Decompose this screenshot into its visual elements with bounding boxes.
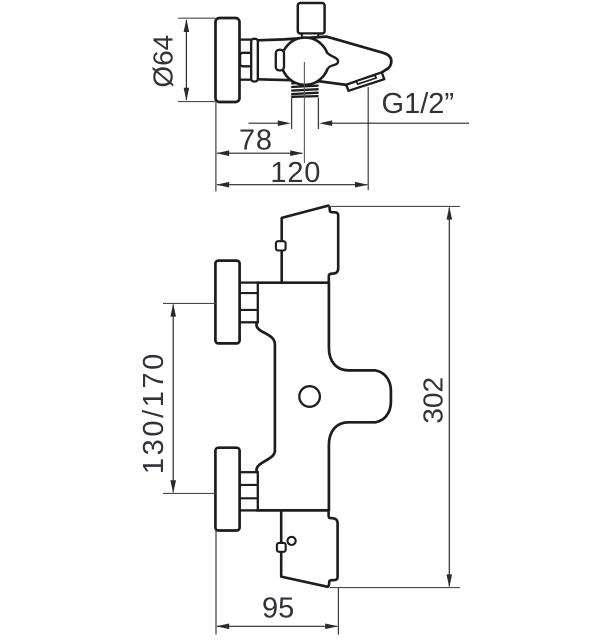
svg-text:95: 95 [262,593,294,625]
dimension 130/170 extension top [163,302,215,304]
svg-text:120: 120 [270,157,321,189]
aerator outer plate [346,72,384,90]
bottom handle (lever, seen from end) [281,510,337,586]
shower hose threaded outlet [291,81,318,98]
diverter stem [302,34,318,40]
dimension 302 extension top [329,205,460,207]
check valve small rect [240,53,253,67]
svg-text:78: 78 [239,124,273,156]
dimension Ø64 line with arrows [184,19,190,101]
diverter knob (top rectangle) [298,3,325,34]
bottom inlet connector (threaded) [240,472,258,510]
top inlet connector (threaded) [240,283,258,323]
outlet thread extension line left [291,98,293,129]
top wall flange (front view) [215,261,239,344]
dimension 78 line with arrows [216,150,303,156]
dimension 95 line with arrows [216,624,338,630]
spout outlet extension line [367,87,369,190]
wall flange (side view) [216,18,240,102]
dimension 302 extension bottom [330,587,460,589]
faucet body with spout (side view silhouette) [258,37,392,85]
G1/2 leader line with arrows [249,120,470,126]
dimension 120 line with arrows [216,182,368,188]
top handle button [276,241,286,250]
dimension Ø64 extension bottom [178,101,216,103]
svg-text:Ø64: Ø64 [148,35,179,88]
svg-text:130/170: 130/170 [138,351,170,474]
knob left stop tab [276,50,284,71]
cover ring [251,39,258,82]
dimension Ø64 extension top [178,17,216,19]
bottom handle button [277,543,286,552]
outlet thread extension line right [317,98,319,129]
cartridge screw (centre circle) [299,386,320,407]
dimension 95 extension left [215,531,217,635]
faucet body (front view silhouette) [257,283,391,511]
dimension 78/120 left extension line [215,102,217,191]
knob right pointer tab [326,52,338,72]
centre line of shower outlet [303,62,305,163]
dimension 130/170 extension bottom [163,492,215,494]
eccentric connector top line [240,38,252,40]
bottom handle pin (small circle) [288,537,296,545]
dimension 130/170 line with arrows [170,304,176,494]
dimension 302 line with arrows [447,207,453,588]
eccentric connector bottom line [240,79,252,81]
dimension 95 extension right [337,588,339,635]
svg-text:302: 302 [417,377,448,424]
svg-text:G1/2”: G1/2” [382,88,455,120]
bottom wall flange (front view) [215,448,239,531]
thermostat knob (circle) [281,38,328,85]
top handle (lever, seen from end) [282,206,339,283]
aerator inner slot [356,75,376,84]
